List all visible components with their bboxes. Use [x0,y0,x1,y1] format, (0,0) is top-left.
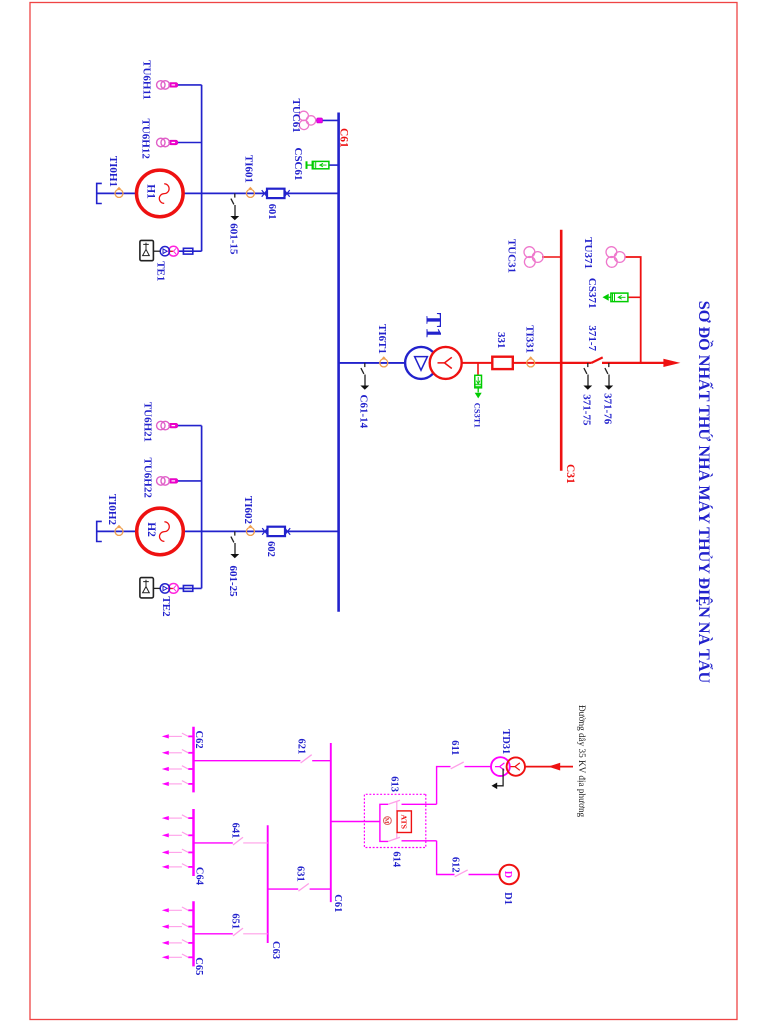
wire ATS input [331,821,380,823]
wire TE1 to AVR [153,250,160,252]
svg-text:TU6H12: TU6H12 [140,119,152,160]
wire CSC61 tap [329,164,339,166]
svg-text:371-76: 371-76 [602,393,614,425]
svg-text:C62: C62 [193,731,204,749]
svg-text:601-25: 601-25 [227,566,239,598]
svg-text:TI602: TI602 [242,496,254,525]
switch 621 blade [301,755,312,763]
arrow CS371 ground [603,294,609,301]
feeder C65-4 [162,954,194,959]
svg-text:CSC61: CSC61 [292,148,304,181]
ATS linkage [396,801,398,839]
breaker 602 lower x [262,528,267,535]
fuse TE1 [183,248,192,254]
wire T1 35kV link [462,362,562,364]
switch 614 blade [388,837,400,841]
breaker 601 [267,189,285,198]
link 651 wire [243,933,268,935]
bus C65 [192,901,195,966]
svg-text:ATS: ATS [400,814,409,829]
feeder C62-2 [162,750,194,755]
excitation transformer TE2 [160,584,178,594]
switch 651 blade [233,928,243,936]
surge arrester CS3T1 [475,375,482,392]
svg-text:371-75: 371-75 [581,394,593,426]
svg-text:C31: C31 [564,464,576,484]
wire H1 feeder [97,192,339,194]
wire H2 aux collector [201,426,203,589]
bus C31 [560,230,563,471]
generator H1 [137,170,184,217]
VT TUC31 [524,247,543,268]
wire TE1 tap [178,250,201,252]
feeder C65-1 [162,907,194,912]
svg-text:TUC31: TUC31 [506,239,518,273]
earthing switch 601-15 [230,193,239,220]
svg-text:D1: D1 [502,892,513,905]
neutral bracket H1 [97,183,102,203]
surge arrester CS371 [609,293,628,302]
earthing hook TD31 [492,769,504,790]
CT TI602 [246,525,254,536]
breaker 601 lower x [262,190,267,197]
svg-text:TU6H21: TU6H21 [142,402,154,442]
svg-text:C61: C61 [338,128,350,148]
switch 611 blade [451,762,464,769]
svg-text:651: 651 [230,913,241,929]
wire CS3T1 tap [477,363,479,375]
bus C61 self-use [330,743,332,902]
svg-text:371-7: 371-7 [586,325,598,351]
wire TUC61 tap [315,119,339,121]
CT TI601 [246,187,254,198]
switch 613 blade [388,800,400,804]
bus C64 [192,809,195,876]
wire TU6H21 tap [178,425,202,427]
wire TU6H11 tap [178,84,202,86]
fuse TU6H21 [169,423,178,428]
transformer TD31 [491,757,525,776]
svg-text:621: 621 [296,739,307,755]
svg-text:614: 614 [391,851,402,868]
switch 631 blade [298,884,308,892]
svg-text:601-15: 601-15 [228,223,240,255]
arrow 35kV incoming [548,763,560,771]
CT TI0H1 [115,187,123,198]
svg-text:D: D [502,871,513,878]
wire 35kV incoming [525,766,573,768]
svg-text:TU6H22: TU6H22 [142,458,154,499]
generator D1 [500,865,519,884]
CT TI0H2 [115,525,123,536]
svg-text:H1: H1 [145,184,157,199]
CT TI331 [527,356,535,367]
svg-text:601: 601 [266,204,277,220]
svg-text:C65: C65 [193,957,204,975]
VT TU6H21 [157,421,170,430]
earthing switch 371-75 [583,363,592,390]
arrow 371 line end [663,359,680,367]
ATS common bracket [380,804,388,841]
VT TU6H11 [157,81,170,90]
bus C62 [192,727,195,793]
svg-text:TE2: TE2 [160,596,172,617]
wire TE2 tap [178,587,201,589]
svg-text:TD31: TD31 [500,729,511,754]
wire TU6H22 tap [178,480,202,482]
earthing switch 601-25 [230,531,239,558]
breaker 602 [268,527,286,536]
link 621 wire [194,760,331,762]
svg-text:TI601: TI601 [243,155,255,183]
VT TUC61 [299,111,316,129]
svg-text:TI6T1: TI6T1 [376,324,388,354]
wire H2 feeder [97,530,339,532]
svg-text:TE1: TE1 [155,261,167,281]
fuse TE2 [183,586,192,592]
feeder C64-3 [162,849,194,854]
VT TU6H12 [157,138,170,147]
svg-text:TU6H11: TU6H11 [141,60,153,100]
AVR box TE2 [140,578,154,598]
wire H1 aux collector [201,85,203,251]
link 631 wire [268,888,331,890]
wire TU6H12 tap [178,142,202,144]
svg-text:M: M [383,818,390,824]
breaker 602 upper x [285,528,290,535]
fuse TUC61 [317,118,323,123]
wire 611 path [437,767,451,805]
earthing switch 371-76 [604,363,613,390]
motor M [383,817,392,825]
ATS cabinet box [364,794,425,847]
wire 371 feeder [561,362,591,364]
wire 614 output [402,840,437,842]
fuse TU6H22 [169,479,178,484]
svg-text:TI331: TI331 [524,325,536,353]
switch 612 blade [455,870,468,877]
svg-text:C63: C63 [270,941,281,959]
neutral bracket H2 [97,521,102,541]
VT TU6H22 [157,477,170,486]
svg-text:631: 631 [295,866,306,882]
AVR box TE1 [140,240,154,260]
CT TI6T1 [380,356,388,367]
svg-text:CS3T1: CS3T1 [473,403,483,428]
breaker 331 [492,357,513,369]
svg-text:Đường dây 35 KV địa phương: Đường dây 35 KV địa phương [577,705,587,818]
svg-text:331: 331 [495,332,507,349]
earthing switch C61-14 [360,363,369,390]
wire TE2 to AVR [153,587,160,589]
arrow CS3T1 ground [475,393,482,399]
svg-text:C64: C64 [194,867,205,886]
svg-text:TI0H2: TI0H2 [106,494,118,526]
svg-text:602: 602 [265,541,276,557]
wire 613 output [402,803,437,805]
svg-text:613: 613 [389,776,400,792]
feeder C62-1 [162,733,194,738]
feeder C62-3 [162,766,194,771]
feeder C64-1 [162,815,194,820]
svg-text:C61: C61 [332,894,343,912]
svg-text:612: 612 [450,857,461,873]
fuse TU6H12 [169,140,178,145]
svg-text:T1: T1 [422,313,447,339]
wire T1 6kV branch [339,362,413,364]
wire TUC31 tap [542,256,561,258]
excitation transformer TE1 [160,246,178,256]
svg-text:CS371: CS371 [586,278,598,309]
wire 611 to TD31 [465,766,492,768]
link 641 wire [243,842,268,844]
feeder C65-3 [162,940,194,945]
svg-text:611: 611 [449,740,460,755]
switch 641 blade [233,837,243,845]
breaker 601 upper x [284,190,289,197]
svg-text:641: 641 [230,823,241,839]
svg-text:TUC61: TUC61 [290,99,302,133]
feeder C64-4 [162,864,194,869]
svg-text:TU371: TU371 [582,237,594,269]
generator H2 [137,508,184,555]
disconnector 371-7 blade [592,357,603,363]
bus C61 [337,113,340,612]
svg-text:C61-14: C61-14 [357,395,369,429]
svg-text:SƠ ĐỒ NHẤT THỨ NHÀ MÁY THỦY ĐI: SƠ ĐỒ NHẤT THỨ NHÀ MÁY THỦY ĐIỆN NÀ TẨU [695,301,715,684]
fuse TU6H11 [169,83,178,88]
feeder C64-2 [162,832,194,837]
transformer T1 [405,347,462,379]
wire CS371 tap [628,296,641,298]
feeder C62-4 [162,781,194,786]
wire 612 path [437,841,455,875]
feeder C65-2 [162,923,194,928]
surge arrester CSC61 [307,161,329,169]
svg-text:TI0H1: TI0H1 [107,156,119,187]
VT TU371 [606,247,625,268]
ATS box [397,811,411,833]
wire 371 feeder upper [602,362,664,364]
svg-text:H2: H2 [145,522,157,537]
bus C63 [267,825,269,943]
wire TU371 branch [624,257,640,363]
wire 612 to D1 [469,874,500,876]
